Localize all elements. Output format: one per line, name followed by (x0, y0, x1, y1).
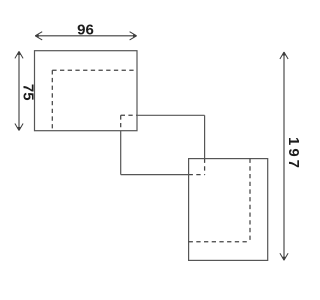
dimension 75 (left vertical double arrow) (15, 51, 37, 130)
hidden rectangle A (dashed, behind R1) (52, 70, 137, 131)
rectangle R1 (top-left solid 96x75) (35, 51, 138, 131)
hidden rectangle B (dashed, behind R2) (189, 159, 250, 242)
svg-text:96: 96 (77, 21, 94, 38)
dimension 96 (top horizontal double arrow) (35, 21, 136, 40)
svg-text:197: 197 (285, 137, 300, 171)
rectangle R2 (bottom-right solid 75x96) (189, 159, 268, 261)
dimension 197 (right vertical double arrow) (280, 52, 302, 260)
svg-text:75: 75 (20, 84, 37, 101)
middle rectangle M (solid outside, dashed where hidden) (121, 115, 205, 174)
